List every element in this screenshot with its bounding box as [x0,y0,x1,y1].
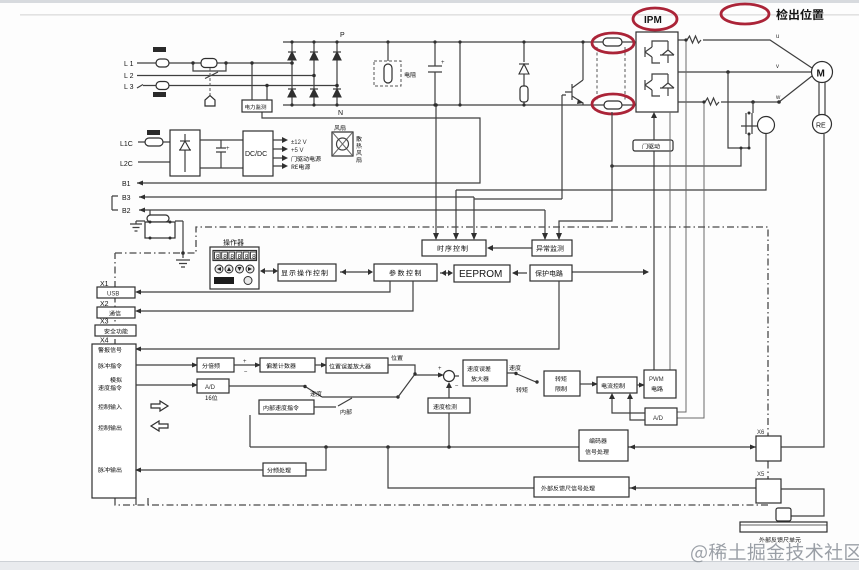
svg-text:L1C: L1C [120,141,133,148]
svg-text:v: v [776,64,779,70]
svg-text:P: P [340,32,345,39]
svg-text:L2C: L2C [120,161,133,168]
svg-text:RE: RE [816,123,826,130]
svg-text:USB: USB [107,292,119,298]
svg-text:M: M [817,69,825,80]
svg-text:A/D: A/D [205,385,216,391]
svg-text:±12 V: ±12 V [291,140,307,146]
svg-text:+: + [438,366,442,372]
svg-text:B2: B2 [122,208,131,215]
svg-text:w: w [775,95,781,101]
svg-text:DC/DC: DC/DC [245,151,267,158]
svg-text:888888: 888888 [216,254,259,261]
svg-text:+5 V: +5 V [291,148,304,154]
svg-text:L 3: L 3 [124,84,134,91]
svg-text:EEPROM: EEPROM [459,269,502,280]
svg-text:u: u [776,34,779,40]
svg-text:L 2: L 2 [124,73,134,80]
svg-text:A/D: A/D [653,416,664,422]
svg-text:B3: B3 [122,195,131,202]
svg-text:X5: X5 [757,472,765,478]
svg-text:+: + [243,359,247,365]
svg-text:N: N [338,110,343,117]
svg-text:+: + [226,146,230,152]
svg-text:+: + [441,60,445,66]
svg-text:IPM: IPM [644,15,662,26]
svg-text:L 1: L 1 [124,61,134,68]
svg-text:B1: B1 [122,181,131,188]
svg-text:X6: X6 [757,430,765,436]
svg-text:PWM: PWM [649,377,664,383]
